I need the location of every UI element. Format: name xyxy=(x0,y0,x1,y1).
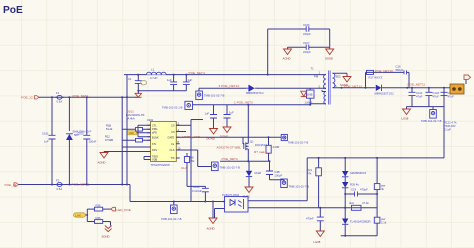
svg-text:R36: R36 xyxy=(96,216,102,220)
svg-text:POE_NET11: POE_NET11 xyxy=(408,82,426,86)
svg-text:47.5kB: 47.5kB xyxy=(105,138,113,142)
svg-text:0.022uF: 0.022uF xyxy=(192,189,202,193)
IC U101 TPS23753A xyxy=(147,118,181,167)
svg-text:PoE: PoE xyxy=(3,5,23,16)
optocoupler U3 xyxy=(222,193,248,212)
svg-text:LG08: LG08 xyxy=(314,240,321,244)
junction dots feedback rail xyxy=(318,157,379,159)
junction zener col xyxy=(344,193,378,195)
wire aux cap bottom rail y=90.8 xyxy=(138,90,186,92)
wire IC pin4 right xyxy=(176,131,186,133)
testpoint TP5 lower xyxy=(281,179,309,189)
svg-text:PRG: PRG xyxy=(152,127,158,131)
svg-text:PRI: PRI xyxy=(314,75,319,79)
junction dots on input rail xyxy=(51,96,128,98)
svg-text:C121: C121 xyxy=(416,91,423,95)
svg-text:TMB-101-02-7-B: TMB-101-02-7-B xyxy=(161,217,182,221)
svg-text:POE_NET13: POE_NET13 xyxy=(344,84,362,88)
wire vertical x=127 xyxy=(126,75,128,185)
svg-text:Q1: Q1 xyxy=(250,140,254,144)
feedback vertical from output xyxy=(443,88,445,158)
svg-text:47uF: 47uF xyxy=(416,95,423,99)
inductor L1 xyxy=(146,67,166,80)
svg-text:MBR0530T1G2: MBR0530T1G2 xyxy=(375,92,395,96)
svg-text:TMB-101-02-7-B: TMB-101-02-7-B xyxy=(204,94,225,98)
svg-text:DGND: DGND xyxy=(220,135,228,139)
svg-text:C38: C38 xyxy=(275,170,281,174)
svg-text:pwr: pwr xyxy=(381,184,386,188)
wire Y-cap right link xyxy=(329,29,331,47)
diode D106 column xyxy=(246,161,262,187)
svg-text:47uF: 47uF xyxy=(448,95,455,99)
svg-text:0.1uF: 0.1uF xyxy=(444,128,451,132)
svg-text:LNK: LNK xyxy=(129,131,134,135)
svg-text:TPS23753APW: TPS23753APW xyxy=(151,163,171,167)
junction dots opto net xyxy=(319,207,346,209)
svg-text:1uF: 1uF xyxy=(205,112,210,116)
svg-text:LNK: LNK xyxy=(76,213,82,217)
svg-text:1 POE_NET3: 1 POE_NET3 xyxy=(234,101,253,105)
svg-text:R? mak 1: R? mak 1 xyxy=(254,150,268,154)
bottom bus y=201.5 xyxy=(130,185,225,202)
svg-text:POE_NET10: POE_NET10 xyxy=(375,69,393,73)
svg-text:TMB-101-02-7-B: TMB-101-02-7-B xyxy=(288,141,309,145)
svg-text:ADSOTA-2T WBL: ADSOTA-2T WBL xyxy=(217,146,242,150)
wire cs fet source row xyxy=(220,160,269,162)
feedback rail y=157.9 xyxy=(307,157,444,159)
svg-text:VDB: VDB xyxy=(152,158,158,162)
svg-text:R17 WXYZ: R17 WXYZ xyxy=(369,76,383,80)
capacitor C108 xyxy=(167,75,177,91)
svg-text:TMB-101-02-7-B: TMB-101-02-7-B xyxy=(289,185,310,189)
svg-text:C101: C101 xyxy=(42,132,49,136)
ground CLR under D106 xyxy=(243,187,254,199)
sense resistor R31 xyxy=(254,137,279,161)
opto right bottom wire xyxy=(248,207,377,209)
svg-text:1nF: 1nF xyxy=(44,140,49,144)
no-connect marker xyxy=(141,81,147,85)
svg-text:47uF: 47uF xyxy=(433,95,440,99)
svg-text:POE_NET2: POE_NET2 xyxy=(222,157,238,161)
svg-text:CS: CS xyxy=(171,124,175,128)
svg-text:KTc: KTc xyxy=(152,142,157,146)
svg-text:47k: 47k xyxy=(307,172,312,176)
LED net label yellow xyxy=(74,213,88,218)
transformer T1 xyxy=(310,67,341,105)
svg-text:0.5A: 0.5A xyxy=(57,100,63,104)
label D101 BAV3004W-HF xyxy=(126,110,145,121)
capacitor C104 top xyxy=(128,75,142,94)
yellow net label LNK near IC xyxy=(128,131,137,135)
wire Y-cap left drop xyxy=(267,29,269,75)
junction dots output xyxy=(341,87,446,89)
svg-text:R21: R21 xyxy=(307,168,313,172)
svg-text:0.5A: 0.5A xyxy=(57,187,63,191)
wire c38 to tp xyxy=(270,179,285,182)
svg-text:BAV3004W-HF: BAV3004W-HF xyxy=(126,113,145,117)
TVS diode D102 xyxy=(66,97,92,184)
capacitor C38 xyxy=(266,161,283,180)
junction tl431 bottom xyxy=(344,235,346,237)
svg-text:R26 4k: R26 4k xyxy=(350,183,359,187)
svg-text:FDC2512: FDC2512 xyxy=(255,143,267,147)
junction dots top rail xyxy=(137,74,269,76)
svg-text:R35: R35 xyxy=(96,204,102,208)
svg-text:100nF: 100nF xyxy=(89,140,97,144)
svg-text:R1B: R1B xyxy=(106,124,111,128)
IC left pin wires xyxy=(122,125,150,147)
svg-text:C107: C107 xyxy=(303,41,310,45)
svg-text:PDR-03V: PDR-03V xyxy=(444,124,456,128)
ground LGND divider xyxy=(314,231,325,244)
svg-text:470nF: 470nF xyxy=(306,217,314,221)
svg-text:T1: T1 xyxy=(311,67,315,71)
wire AGND to IC pin xyxy=(104,151,151,153)
svg-text:R12: R12 xyxy=(105,135,110,139)
snubber box SNB xyxy=(307,88,315,105)
junction dot c104 xyxy=(137,90,139,92)
svg-text:AGND: AGND xyxy=(98,161,106,165)
svg-text:BLNK: BLNK xyxy=(152,135,159,139)
resistor R15k below IC xyxy=(184,153,202,186)
aux wire y=88.2 xyxy=(199,87,326,89)
svg-text:C103: C103 xyxy=(77,132,84,136)
svg-text:TMB-101-02-7-B: TMB-101-02-7-B xyxy=(421,119,442,123)
capacitor C109 xyxy=(183,75,193,91)
svg-text:R8: R8 xyxy=(190,156,194,160)
gate wire xyxy=(176,137,281,144)
capacitor C103 shunt xyxy=(77,97,97,184)
ground AGND bus xyxy=(207,202,218,231)
fuse F1 xyxy=(56,91,65,103)
zener D108 xyxy=(342,177,359,208)
output diode D105 xyxy=(375,85,395,96)
testpoint TP2 xyxy=(162,101,193,109)
svg-text:AGND: AGND xyxy=(207,227,215,231)
testpoint TP3 gate end xyxy=(281,134,308,144)
wire cls row xyxy=(176,150,211,167)
junction aux rail xyxy=(309,104,311,106)
svg-text:U101: U101 xyxy=(147,118,154,122)
resistor R24 inline xyxy=(349,201,369,210)
svg-text:DKV: DKV xyxy=(152,148,158,152)
port POE_34 xyxy=(5,183,19,187)
resistor R35 led top xyxy=(87,204,111,212)
junction gate row sense tap xyxy=(268,136,270,138)
Y-cap C106 xyxy=(268,23,330,36)
capacitor C110 vdd xyxy=(205,105,218,129)
svg-text:A10R: A10R xyxy=(273,145,280,149)
svg-text:1uF: 1uF xyxy=(188,78,193,82)
TL431 U4 xyxy=(342,208,370,236)
wire IC pin2 right xyxy=(176,124,191,126)
capacitor C19 branch xyxy=(345,188,377,197)
svg-text:FS: FS xyxy=(172,130,176,134)
svg-text:AGND: AGND xyxy=(283,57,291,61)
diode D103 aux xyxy=(246,85,264,95)
svg-text:SGND: SGND xyxy=(102,234,110,238)
svg-text:4.7uH: 4.7uH xyxy=(150,76,157,80)
svg-text:47.4k: 47.4k xyxy=(362,201,369,205)
svg-text:220pF: 220pF xyxy=(303,32,311,36)
opto left bottom pin wire xyxy=(215,209,225,219)
svg-text:D101: D101 xyxy=(127,110,135,114)
testpoint TP6 cls xyxy=(212,162,241,171)
ground GND output xyxy=(402,107,411,121)
svg-text:TMB-101-02-7-B: TMB-101-02-7-B xyxy=(220,166,241,170)
svg-text:CLS: CLS xyxy=(170,148,175,152)
svg-text:C115: C115 xyxy=(193,185,200,189)
Y-cap C107 xyxy=(288,41,330,54)
resistor R11 ic left xyxy=(106,124,143,132)
ground DGND under C111 xyxy=(220,127,231,139)
wire vdd rail y=104.8 xyxy=(193,104,311,106)
svg-text:F2: F2 xyxy=(56,178,60,182)
ground SGND led xyxy=(102,226,112,239)
svg-text:470pF: 470pF xyxy=(360,188,368,192)
svg-text:SZMM5Z6V2: SZMM5Z6V2 xyxy=(350,171,367,175)
secondary top wire to SGND xyxy=(333,73,347,76)
bottom rail divider xyxy=(341,235,377,237)
testpoint TP7 bus xyxy=(161,202,182,222)
opto right top pin wire xyxy=(248,158,307,201)
capacitor C118 xyxy=(306,208,324,231)
svg-text:SNB: SNB xyxy=(307,93,313,97)
MOSFET Q1 xyxy=(244,105,267,161)
junction dots bottom bus xyxy=(173,201,225,203)
svg-text:T/S: T/S xyxy=(171,156,175,160)
junction fet source xyxy=(247,160,249,162)
svg-text:560pF: 560pF xyxy=(396,68,404,72)
svg-text:mha8: mha8 xyxy=(254,171,261,175)
svg-text:CLA: CLA xyxy=(181,166,188,170)
svg-text:1uF: 1uF xyxy=(167,78,172,82)
svg-text:100pF: 100pF xyxy=(275,174,283,178)
wire vdd feed to IC x=191 xyxy=(191,120,203,202)
svg-text:C122: C122 xyxy=(433,91,440,95)
wire aux lower riser xyxy=(310,104,312,105)
diode D100 red xyxy=(135,93,141,97)
ground SGND secondary xyxy=(340,77,351,88)
divider resistor R21 xyxy=(307,158,321,208)
output ground rail xyxy=(407,106,445,108)
svg-text:51.2k: 51.2k xyxy=(106,127,113,131)
junction FET drain xyxy=(247,104,249,106)
svg-text:1?RTN_GND: 1?RTN_GND xyxy=(182,135,201,139)
main output wire y=87.7 xyxy=(333,87,450,89)
svg-text:R122 4.7k: R122 4.7k xyxy=(444,121,457,125)
capacitor C101 shunt xyxy=(42,97,56,184)
svg-text:L1: L1 xyxy=(151,67,155,71)
svg-text:POE_NET4: POE_NET4 xyxy=(189,71,205,75)
svg-text:TL4310ACDB2R: TL4310ACDB2R xyxy=(350,220,370,224)
capacitor C115 xyxy=(192,185,209,202)
testpoint TP1 xyxy=(196,88,225,99)
wire top rail y=74.6 xyxy=(124,74,323,76)
connector J1 output xyxy=(450,84,464,94)
svg-text:C19: C19 xyxy=(351,188,357,192)
svg-text:LG08: LG08 xyxy=(402,117,409,121)
svg-text:GATE: GATE xyxy=(168,135,175,139)
capacitor C122 out xyxy=(425,88,439,107)
svg-text:F1: F1 xyxy=(56,91,60,95)
wire IC bottom pins xyxy=(144,157,151,160)
wire input top rail y=97.3 xyxy=(38,96,138,98)
svg-text:aPD: aPD xyxy=(152,130,157,134)
diode D104 red snub xyxy=(301,91,313,104)
port VOUT red xyxy=(464,75,471,84)
capacitor C111 vdd xyxy=(224,105,235,127)
svg-text:220pF: 220pF xyxy=(303,50,311,54)
right divider column R28 xyxy=(374,217,387,236)
ground DGND under C110 xyxy=(207,129,218,141)
right divider column R27 xyxy=(374,158,385,217)
blue text block right xyxy=(444,121,457,132)
svg-text:TMB-101-02-1-B: TMB-101-02-1-B xyxy=(162,105,183,109)
svg-text:A 4kA: A 4kA xyxy=(128,117,135,121)
capacitor C123 out xyxy=(441,88,455,107)
ground AGND left ycap xyxy=(283,47,292,60)
resistor R12 ic left xyxy=(105,135,143,143)
junction c38 xyxy=(269,160,271,162)
snubber branch R17 C16 xyxy=(366,65,410,88)
junction dots on bottom rail xyxy=(51,184,128,186)
port POE_12 xyxy=(21,96,39,100)
wire bottom rail y=184.5 xyxy=(18,184,130,186)
svg-text:LED_POE: LED_POE xyxy=(117,208,131,212)
capacitor C121 out xyxy=(409,88,424,107)
ground SGND right ycap xyxy=(325,47,334,60)
svg-text:C106: C106 xyxy=(303,23,310,27)
svg-text:POE_12: POE_12 xyxy=(21,96,33,100)
port LED_POE xyxy=(111,207,131,212)
fuse F2 xyxy=(56,178,65,190)
wire vertical x=122.2 xyxy=(121,97,123,184)
svg-text:2.1k: 2.1k xyxy=(381,221,387,225)
svg-text:SGND: SGND xyxy=(325,57,333,61)
junction led split xyxy=(86,214,88,216)
svg-text:SEC: SEC xyxy=(336,75,341,79)
svg-text:MBR0530T1G: MBR0530T1G xyxy=(246,91,264,95)
zener D107 xyxy=(342,158,367,177)
svg-text:C1: C1 xyxy=(128,77,132,81)
ground AGND left of IC xyxy=(98,152,109,165)
wire led split vertical xyxy=(86,209,88,221)
resistor R36 led bottom xyxy=(87,216,110,226)
svg-text:4km: 4km xyxy=(349,201,355,205)
testpoint TP4 xyxy=(421,107,442,123)
junction dots top rail caps xyxy=(173,74,188,76)
svg-text:15k: 15k xyxy=(190,159,195,163)
svg-text:pwr: pwr xyxy=(381,217,386,221)
svg-text:3 POE_NET1A: 3 POE_NET1A xyxy=(219,84,241,88)
svg-text:1uF: 1uF xyxy=(229,111,234,115)
